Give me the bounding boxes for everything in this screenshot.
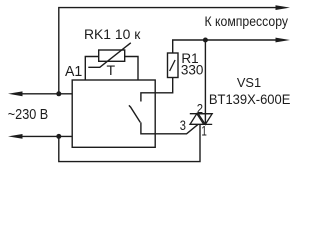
junction dot upper left [56,91,61,96]
wire top mains line to compressor [59,8,276,94]
svg-text:К компрессору: К компрессору [205,13,289,29]
wire from lower-left junction to triac MT1 [59,124,200,161]
triac VS1 symbol [190,114,212,125]
svg-text:A1: A1 [65,63,82,80]
svg-text:T: T [107,63,116,78]
wire thermistor right lead and stub [125,57,138,81]
svg-text:3: 3 [180,118,186,133]
svg-text:VS1: VS1 [237,75,261,90]
svg-text:BT139X-600E: BT139X-600E [209,91,291,107]
thermistor RK1 body [99,50,125,61]
wire upper-left arrow line ~230V [22,93,72,95]
switch contact in A1 [129,105,140,122]
svg-text:~230 В: ~230 В [8,107,48,123]
junction dot lower left [56,134,61,139]
box A1 thermostat module [72,80,155,147]
wire thermistor left lead and stub [85,57,98,81]
arrowhead lower left [8,134,23,139]
wire triac MT2 to second line [204,40,206,124]
arrowhead top right [276,5,291,10]
thermistor RK1 diagonal with foot [88,43,131,68]
wire lower-left arrow line ~230V [22,135,72,137]
wire second line to compressor from R1/triac [173,40,276,53]
svg-text:330: 330 [181,62,204,77]
junction dot triac MT2 line [203,38,208,43]
resistor R1 power slash 0.125W [170,60,176,71]
wire switch bottom to gate [141,122,198,133]
svg-text:RK1 10 к: RK1 10 к [84,26,141,42]
arrowhead upper left [8,91,23,96]
arrowhead second right [276,38,291,43]
resistor R1 body [168,53,179,78]
svg-text:1: 1 [201,124,207,139]
svg-text:2: 2 [197,101,203,116]
wire R1 bottom to switch fixed contact [141,78,173,102]
